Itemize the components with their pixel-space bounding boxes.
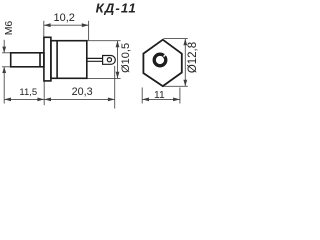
hexagon front view xyxy=(143,40,181,86)
arrowhead 20,3 left xyxy=(44,98,51,102)
svg-text:КД-11: КД-11 xyxy=(96,0,137,15)
11 dimension line xyxy=(142,98,180,100)
thread end line xyxy=(39,53,41,67)
Ø10,5 extension line top xyxy=(87,40,121,42)
arrowhead 10,2 left xyxy=(44,23,51,27)
lead wire top edge xyxy=(87,57,103,59)
hex flange side view xyxy=(44,37,51,81)
svg-text:Ø12,8: Ø12,8 xyxy=(187,42,199,73)
Ø10,5 dimension line xyxy=(117,41,119,79)
arrowhead 10,2 right xyxy=(82,23,89,27)
arrowhead Ø10,5 top xyxy=(116,41,120,48)
Ø10,5 extension line bottom xyxy=(87,77,121,79)
M6 / 11,5 dimension vertical line lower xyxy=(3,67,5,103)
arrowhead M6 lower (up) xyxy=(2,67,6,73)
Ø12,8 extension line top xyxy=(164,38,188,40)
Ø12,8 dimension line xyxy=(184,39,186,87)
body seam line xyxy=(56,41,58,79)
M6 extension line top xyxy=(2,52,11,54)
spade hole xyxy=(107,58,111,62)
arrowhead Ø12,8 top xyxy=(183,39,187,46)
11 extension line left xyxy=(141,88,143,104)
ring gap highlight xyxy=(164,54,167,57)
arrowhead Ø12,8 bottom xyxy=(183,80,187,87)
M6 extension line bottom xyxy=(2,66,11,68)
arrowhead 20,3 right xyxy=(108,98,115,102)
bottom dimension line 11,5 / 20,3 xyxy=(4,98,115,100)
center ring (stud end view) xyxy=(154,54,166,66)
body (case) xyxy=(51,41,87,79)
11 extension line right xyxy=(179,88,181,104)
10,2 dimension line xyxy=(44,24,89,26)
arrowhead 11 left xyxy=(142,98,149,102)
svg-text:20,3: 20,3 xyxy=(72,86,93,98)
arrowhead M6 upper (down) xyxy=(2,47,6,53)
arrowhead Ø10,5 bottom xyxy=(116,72,120,79)
svg-text:М6: М6 xyxy=(3,21,15,36)
svg-text:Ø10,5: Ø10,5 xyxy=(120,43,132,73)
Ø12,8 extension line bottom xyxy=(164,85,188,87)
svg-text:11,5: 11,5 xyxy=(19,87,37,98)
lead wire bottom edge xyxy=(87,60,103,62)
svg-text:11: 11 xyxy=(154,90,165,101)
arrowhead 11,5 left xyxy=(4,98,11,102)
10,2 extension line left xyxy=(43,21,45,37)
extension line right (lead end) xyxy=(114,66,116,109)
arrowhead 11,5 right xyxy=(37,98,44,102)
10,2 extension line right xyxy=(88,21,90,41)
spade terminal xyxy=(103,56,116,65)
extension line middle (flange face) xyxy=(43,81,45,105)
M6 dimension line upper xyxy=(3,40,5,53)
stud (M6 thread) xyxy=(11,53,44,67)
arrowhead 11 right xyxy=(173,98,180,102)
svg-text:10,2: 10,2 xyxy=(53,12,74,24)
